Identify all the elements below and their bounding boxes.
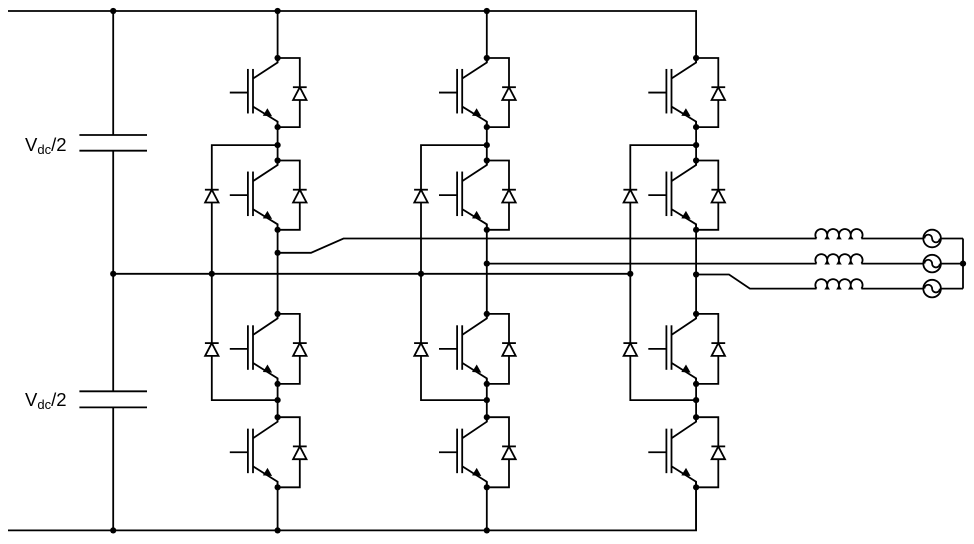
wire: inductor Lc to source bbox=[861, 288, 923, 290]
wire: phase a output with jog up bbox=[278, 239, 817, 253]
wire: inductor La to source bbox=[861, 238, 923, 240]
transistor S1b (IGBT) bbox=[439, 58, 487, 127]
node: phase b S4 collector bbox=[484, 414, 490, 420]
node: phase c S2 emitter bbox=[693, 227, 699, 233]
wire: phase c S4 emitter to DC- bbox=[695, 482, 697, 531]
transistor S4b (IGBT) bbox=[439, 417, 487, 487]
diode D2a (anti-parallel) bbox=[278, 161, 307, 230]
wire: phase b upper clamp diode to neutral bbox=[420, 203, 422, 274]
wire: phase c S3-S4 link bbox=[695, 378, 697, 421]
node: phase a output bbox=[275, 250, 281, 256]
node: phase a S4 emitter bbox=[275, 484, 281, 490]
wire: phase c lower clamp branch bbox=[630, 356, 696, 400]
node: phase b output bbox=[484, 261, 490, 267]
wire: phase a lower clamp branch bbox=[212, 356, 278, 400]
inductor La bbox=[815, 229, 862, 239]
diode D3a (anti-parallel) bbox=[278, 314, 307, 384]
wire: phase c upper clamp diode to neutral bbox=[629, 203, 631, 274]
capacitor C2 bbox=[79, 391, 147, 407]
node: phase b S1 emitter bbox=[484, 124, 490, 130]
transistor S2a (IGBT) bbox=[230, 161, 278, 230]
node: phase c lower clamp tap bbox=[693, 397, 699, 403]
wire: phase b neutral to lower clamp diode bbox=[420, 274, 422, 343]
diode D3b (anti-parallel) bbox=[487, 314, 516, 384]
node: phase c S1 collector bbox=[693, 55, 699, 61]
transistor S4a (IGBT) bbox=[230, 417, 278, 487]
node: phase c upper clamp tap bbox=[693, 142, 699, 148]
inductor Lc bbox=[815, 279, 862, 289]
wire: phase b DC+ to S1 collector bbox=[486, 11, 488, 63]
diode D1b (anti-parallel) bbox=[487, 58, 516, 127]
wire: source Va to right bus bbox=[941, 238, 963, 240]
node: phase b upper clamp tap bbox=[484, 142, 490, 148]
transistor S2b (IGBT) bbox=[439, 161, 487, 230]
node: phase a S3 emitter bbox=[275, 381, 281, 387]
wire: DC- bottom rail bbox=[8, 482, 696, 531]
node: phase a S2 emitter bbox=[275, 227, 281, 233]
node: neutral / phase b clamp column bbox=[418, 271, 424, 277]
node: neutral / phase c clamp column bbox=[627, 271, 633, 277]
wire: phase a S4 emitter to DC- bbox=[277, 482, 279, 531]
wire: phase a upper clamp diode to neutral bbox=[211, 203, 213, 274]
node: phase a S3 collector bbox=[275, 311, 281, 317]
wire: neutral rail N bbox=[113, 273, 630, 275]
diode Dc1b (clamp) bbox=[414, 190, 428, 203]
node: phase c S3 collector bbox=[693, 311, 699, 317]
node: phase a S1 emitter bbox=[275, 124, 281, 130]
node: phase b S3 collector bbox=[484, 311, 490, 317]
wire: C1 to C2 via neutral node bbox=[112, 151, 114, 392]
node: phase c S2 collector bbox=[693, 157, 699, 163]
wire: source Vc to right bus bbox=[941, 288, 963, 290]
node: DC- rail / phase a bbox=[275, 527, 281, 533]
transistor S3b (IGBT) bbox=[439, 314, 487, 384]
wire: phase a S3-S4 link bbox=[277, 378, 279, 421]
diode D4b (anti-parallel) bbox=[487, 417, 516, 487]
transistor S1c (IGBT) bbox=[648, 58, 696, 127]
wire: right bus (grid star point) bbox=[962, 239, 964, 289]
wire: phase c S1-S2 link bbox=[695, 122, 697, 165]
wire: phase b S3-S4 link bbox=[486, 378, 488, 421]
node: phase c S1 emitter bbox=[693, 124, 699, 130]
diode Dc2c (clamp) bbox=[623, 343, 637, 356]
node: DC- / C2 bbox=[110, 527, 116, 533]
diode D1a (anti-parallel) bbox=[278, 58, 307, 127]
diode Dc2a (clamp) bbox=[205, 343, 219, 356]
node: DC+ rail / phase a bbox=[275, 8, 281, 14]
diode D4c (anti-parallel) bbox=[696, 417, 725, 487]
node: phase c S4 emitter bbox=[693, 484, 699, 490]
transistor S2c (IGBT) bbox=[648, 161, 696, 230]
node: phase a upper clamp tap bbox=[275, 142, 281, 148]
diode Dc1c (clamp) bbox=[623, 190, 637, 203]
diode D1c (anti-parallel) bbox=[696, 58, 725, 127]
inductor Lb bbox=[815, 254, 862, 264]
node: DC- rail / phase b bbox=[484, 527, 490, 533]
diode D2b (anti-parallel) bbox=[487, 161, 516, 230]
diode D3c (anti-parallel) bbox=[696, 314, 725, 384]
node: phase c output bbox=[693, 271, 699, 277]
node: DC+ rail / phase b bbox=[484, 8, 490, 14]
diode D4a (anti-parallel) bbox=[278, 417, 307, 487]
diode Dc1a (clamp) bbox=[205, 190, 219, 203]
wire: phase b upper clamp branch bbox=[421, 145, 487, 190]
wire: phase c neutral to lower clamp diode bbox=[629, 274, 631, 343]
node: phase b S4 emitter bbox=[484, 484, 490, 490]
node: phase b S2 collector bbox=[484, 157, 490, 163]
node: phase b S3 emitter bbox=[484, 381, 490, 387]
node: neutral / phase a clamp column bbox=[209, 271, 215, 277]
diode Dc2b (clamp) bbox=[414, 343, 428, 356]
wire: phase c S2 emitter to S3 collector bbox=[695, 224, 697, 318]
node: phase a lower clamp tap bbox=[275, 397, 281, 403]
AC source Vc bbox=[923, 280, 941, 298]
transistor S1a (IGBT) bbox=[230, 58, 278, 127]
wire: phase b output bbox=[487, 263, 817, 265]
wire: phase a neutral to lower clamp diode bbox=[211, 274, 213, 343]
diode D2c (anti-parallel) bbox=[696, 161, 725, 230]
wire: phase a S2 emitter to S3 collector bbox=[277, 224, 279, 318]
node: phase b S1 collector bbox=[484, 55, 490, 61]
wire: phase a S1-S2 link bbox=[277, 122, 279, 165]
node: phase a S4 collector bbox=[275, 414, 281, 420]
node: phase c S3 emitter bbox=[693, 381, 699, 387]
AC source Vb bbox=[923, 255, 941, 273]
AC source Va bbox=[923, 230, 941, 248]
wire: DC link top rail to C1 bbox=[112, 11, 114, 135]
wire: phase c output with jog down bbox=[696, 275, 816, 289]
node: phase b S2 emitter bbox=[484, 227, 490, 233]
node: phase a S1 collector bbox=[275, 55, 281, 61]
wire: phase b lower clamp branch bbox=[421, 356, 487, 400]
node: phase b lower clamp tap bbox=[484, 397, 490, 403]
wire: inductor Lb to source bbox=[861, 263, 923, 265]
wire: C2 to bottom rail bbox=[112, 407, 114, 530]
wire: source Vb to right bus bbox=[941, 263, 963, 265]
node: DC+ / C1 bbox=[110, 8, 116, 14]
node: phase a S2 collector bbox=[275, 157, 281, 163]
capacitor C1 bbox=[79, 135, 147, 151]
node: right bus / Vb bbox=[960, 261, 966, 267]
wire: phase b S1-S2 link bbox=[486, 122, 488, 165]
node: phase c S4 collector bbox=[693, 414, 699, 420]
wire: phase b S4 emitter to DC- bbox=[486, 482, 488, 531]
wire: phase c upper clamp branch bbox=[630, 145, 696, 190]
node: neutral / capacitor midpoint bbox=[110, 271, 116, 277]
wire: phase a DC+ to S1 collector bbox=[277, 11, 279, 63]
transistor S3c (IGBT) bbox=[648, 314, 696, 384]
wire: phase b S2 emitter to S3 collector bbox=[486, 224, 488, 318]
wire: DC+ top rail bbox=[8, 11, 696, 63]
wire: phase a upper clamp branch bbox=[212, 145, 278, 190]
transistor S3a (IGBT) bbox=[230, 314, 278, 384]
transistor S4c (IGBT) bbox=[648, 417, 696, 487]
